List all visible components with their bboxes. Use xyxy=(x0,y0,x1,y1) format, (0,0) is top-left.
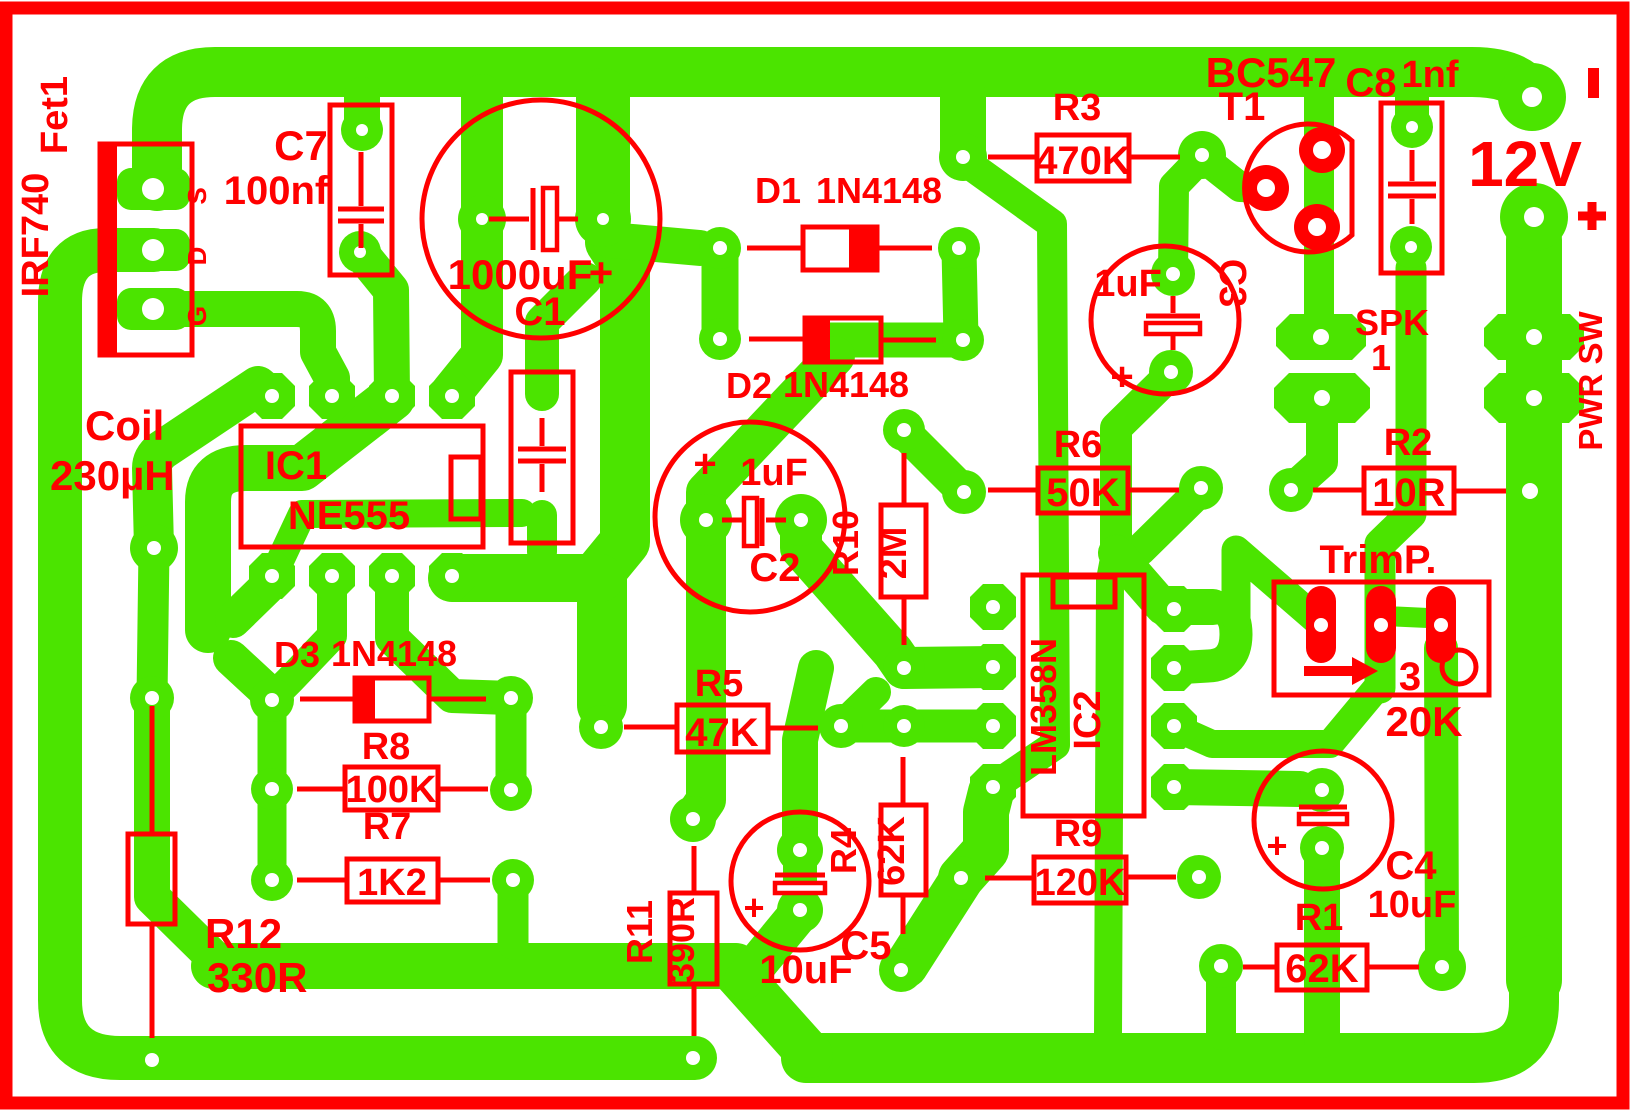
svg-text:LM358N: LM358N xyxy=(1023,638,1064,776)
svg-text:47K: 47K xyxy=(685,711,758,755)
svg-text:R12: R12 xyxy=(205,910,282,957)
svg-text:C1: C1 xyxy=(514,290,565,334)
svg-text:+: + xyxy=(1110,355,1133,399)
svg-text:100K: 100K xyxy=(346,769,437,811)
svg-text:D1: D1 xyxy=(755,170,801,211)
svg-text:IRF740: IRF740 xyxy=(15,173,57,298)
svg-text:20K: 20K xyxy=(1385,698,1462,745)
svg-text:IC1: IC1 xyxy=(265,444,327,488)
svg-text:12V: 12V xyxy=(1468,128,1582,200)
svg-text:+: + xyxy=(1266,825,1287,866)
svg-text:G: G xyxy=(182,306,212,326)
svg-text:S: S xyxy=(182,187,212,204)
svg-text:330R: 330R xyxy=(207,954,307,1001)
svg-text:1uF: 1uF xyxy=(1094,263,1162,305)
svg-text:T1: T1 xyxy=(1219,85,1266,129)
svg-text:+: + xyxy=(743,887,764,928)
svg-text:C4: C4 xyxy=(1385,844,1437,888)
svg-text:R2: R2 xyxy=(1384,422,1433,464)
svg-text:C2: C2 xyxy=(749,546,800,590)
svg-text:NE555: NE555 xyxy=(288,494,410,538)
svg-text:R1: R1 xyxy=(1295,897,1344,939)
svg-text:C7: C7 xyxy=(274,122,328,169)
svg-text:1N4148: 1N4148 xyxy=(816,170,942,211)
svg-text:Coil: Coil xyxy=(85,402,164,449)
svg-text:1N4148: 1N4148 xyxy=(331,633,457,674)
svg-text:1uF: 1uF xyxy=(740,452,808,494)
svg-text:D2: D2 xyxy=(726,365,772,406)
svg-text:+: + xyxy=(693,442,716,486)
svg-text:62K: 62K xyxy=(1285,947,1358,991)
svg-text:R8: R8 xyxy=(362,726,411,768)
svg-text:TrimP.: TrimP. xyxy=(1319,538,1436,582)
svg-text:120K: 120K xyxy=(1035,862,1126,904)
svg-text:R3: R3 xyxy=(1053,87,1102,129)
svg-text:+: + xyxy=(589,249,614,296)
svg-text:R6: R6 xyxy=(1054,424,1103,466)
svg-text:1nf: 1nf xyxy=(1402,54,1459,96)
svg-text:1: 1 xyxy=(1371,337,1391,378)
svg-text:R5: R5 xyxy=(695,663,744,705)
svg-text:50K: 50K xyxy=(1046,471,1119,515)
svg-text:230µH: 230µH xyxy=(50,452,175,499)
svg-text:D3: D3 xyxy=(274,634,320,675)
svg-text:470K: 470K xyxy=(1035,139,1131,183)
svg-text:10uF: 10uF xyxy=(759,948,852,992)
svg-text:390R: 390R xyxy=(661,897,702,983)
svg-text:Fet1: Fet1 xyxy=(34,76,76,154)
svg-text:C3: C3 xyxy=(1211,259,1253,308)
svg-text:R11: R11 xyxy=(619,900,660,964)
svg-text:D: D xyxy=(182,247,212,266)
svg-text:10uF: 10uF xyxy=(1368,884,1457,926)
svg-text:10R: 10R xyxy=(1372,471,1445,515)
svg-text:PWR SW: PWR SW xyxy=(1572,310,1609,450)
svg-text:R9: R9 xyxy=(1054,813,1103,855)
svg-text:1K2: 1K2 xyxy=(357,862,427,904)
svg-text:R4: R4 xyxy=(823,828,864,874)
svg-text:1N4148: 1N4148 xyxy=(783,364,909,405)
svg-text:C8: C8 xyxy=(1345,61,1396,105)
svg-text:SPK: SPK xyxy=(1355,302,1429,343)
svg-text:IC2: IC2 xyxy=(1067,690,1109,749)
svg-text:2M: 2M xyxy=(873,527,915,580)
svg-text:100nf: 100nf xyxy=(224,169,329,213)
svg-text:R7: R7 xyxy=(363,806,412,848)
svg-text:3: 3 xyxy=(1399,655,1421,699)
svg-text:R10: R10 xyxy=(825,510,866,576)
svg-text:62K: 62K xyxy=(871,816,913,886)
